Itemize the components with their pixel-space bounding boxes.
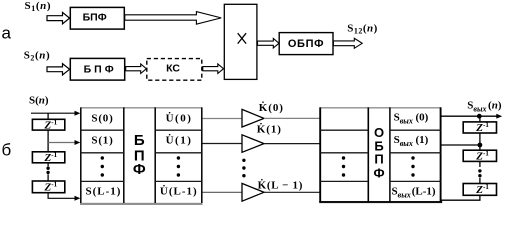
svg-text:Ф: Ф	[133, 161, 146, 178]
svg-text:ОБПФ: ОБПФ	[288, 38, 324, 50]
svg-text:S(1): S(1)	[91, 135, 113, 147]
svg-text:S(0): S(0)	[91, 112, 113, 124]
svg-text:U̇(0): U̇(0)	[166, 112, 193, 125]
svg-text:K̇(L − 1): K̇(L − 1)	[258, 179, 303, 192]
svg-text:а: а	[2, 24, 12, 43]
svg-text:S12(n): S12(n)	[347, 23, 378, 36]
svg-text:K̇(1): K̇(1)	[257, 123, 282, 136]
svg-text:КС: КС	[166, 63, 180, 75]
svg-text:U̇(L-1): U̇(L-1)	[160, 184, 198, 197]
svg-text:U̇(1): U̇(1)	[166, 134, 193, 147]
svg-text:S1(n): S1(n)	[25, 0, 52, 13]
svg-text:Ф: Ф	[373, 165, 384, 180]
svg-text:П: П	[374, 151, 383, 166]
svg-text:S(n): S(n)	[29, 95, 49, 107]
svg-text:БПФ: БПФ	[84, 63, 117, 75]
svg-text:S(L-1): S(L-1)	[86, 185, 122, 197]
svg-text:K̇(0): K̇(0)	[259, 101, 284, 114]
svg-text:БПФ: БПФ	[83, 12, 107, 24]
svg-text:S2(n): S2(n)	[24, 50, 51, 63]
svg-text:б: б	[2, 141, 12, 160]
